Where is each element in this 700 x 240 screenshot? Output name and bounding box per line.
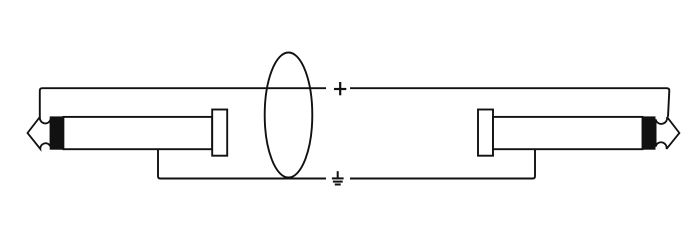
right plug P2 sleeve body [493, 117, 643, 149]
cable shield cross-section ellipse [265, 53, 313, 178]
left plug P1 sleeve body [63, 117, 212, 149]
wire: sleeve (ground) conductor, left plug to right plug [158, 149, 535, 179]
left plug P1 collar [212, 110, 227, 156]
wire: tip (+) conductor, left plug to right plug [40, 88, 670, 117]
left plug P1 insulator ring (black band) [50, 117, 63, 149]
right plug P2 insulator ring (black band) [643, 117, 656, 149]
right plug P2 tip [656, 117, 680, 149]
plus (+) label on tip conductor [334, 82, 346, 95]
ground symbol on sleeve conductor [332, 171, 344, 184]
right plug P2 collar [478, 110, 493, 156]
left plug P1 tip [28, 117, 51, 149]
